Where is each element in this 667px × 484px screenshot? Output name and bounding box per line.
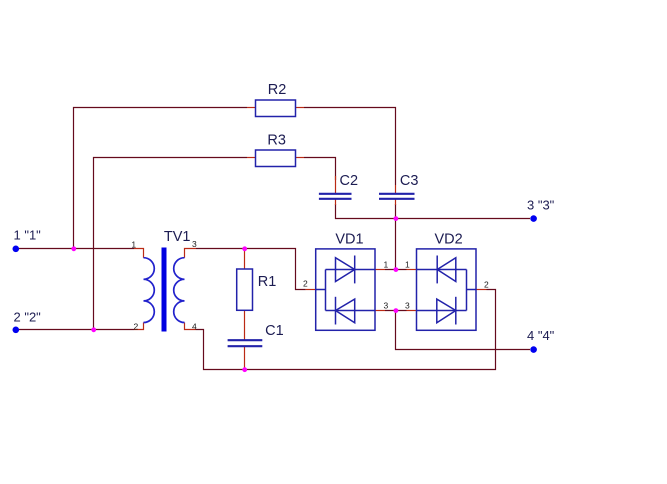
pin stub: C3 bottom pin <box>395 200 397 206</box>
transformer TV1 secondary winding <box>174 258 185 323</box>
pin stub: R3 right pin <box>296 157 305 159</box>
pin stub: TV1 pin2 <box>134 323 144 330</box>
resistor R3 <box>256 150 296 167</box>
pin stub: C1 bottom pin <box>244 347 246 370</box>
svg-text:3 "3": 3 "3" <box>527 198 555 213</box>
svg-text:VD2: VD2 <box>435 232 463 248</box>
pin stub: R1 bottom pin <box>244 311 246 341</box>
pin stub: VD2 pin3 <box>407 310 417 312</box>
junction node at TV1 pin3 / R1 <box>242 246 247 251</box>
svg-text:1: 1 <box>384 259 389 269</box>
diode bridge U VD1 box <box>316 249 375 330</box>
wire: R3 right to C2 top <box>304 158 336 181</box>
capacitor C1 <box>228 340 263 346</box>
pin stub: VD1 pin1 <box>375 269 385 271</box>
wire: node A to terminal3 <box>396 218 531 220</box>
resistor R2 <box>256 100 296 117</box>
pin stub: R1 top pin <box>244 249 246 270</box>
pin stub: R3 left pin <box>247 157 256 159</box>
wire: R2 right to C3 top <box>304 108 396 186</box>
svg-text:2: 2 <box>303 279 308 289</box>
terminal 4 dot <box>530 346 537 353</box>
diode VD1 bottom <box>336 297 355 325</box>
svg-text:2: 2 <box>484 280 489 290</box>
junction node at C1 bottom rail <box>242 367 247 372</box>
svg-text:R3: R3 <box>267 133 286 149</box>
pin stub: VD1 pin3 <box>375 310 385 312</box>
wire: C2 bottom to node A <box>336 204 396 219</box>
terminal 3 dot <box>530 215 537 222</box>
svg-text:1: 1 <box>405 259 410 269</box>
VD2 internal wiring <box>417 270 477 311</box>
junction node A (C2/C3/terminal3) <box>394 216 399 221</box>
wire net1: vertical up from junction to R2 left <box>74 108 248 249</box>
diode VD1 top <box>336 256 355 284</box>
svg-text:C1: C1 <box>265 323 284 339</box>
pin stub: VD1 pin2 <box>306 289 316 291</box>
svg-text:1 "1": 1 "1" <box>14 228 42 243</box>
pin stub: R2 right pin <box>296 107 305 109</box>
svg-text:TV1: TV1 <box>164 229 191 245</box>
wire net2: vertical up from junction to R3 left <box>94 158 248 330</box>
pin stub: VD2 pin1 <box>407 269 417 271</box>
wire net2: terminal2 to TV1 pin2 <box>19 329 134 331</box>
svg-text:VD1: VD1 <box>335 232 363 248</box>
svg-text:3: 3 <box>384 300 389 310</box>
diode bridge VD2 box <box>417 249 477 330</box>
pin stub: TV1 pin4 <box>185 323 197 330</box>
pin stub: VD2 pin2 <box>476 289 487 291</box>
pin stub: C2 bottom pin <box>335 200 337 206</box>
pin stub: C3 top pin <box>395 185 397 193</box>
junction node at R2/terminal1 <box>71 246 76 251</box>
wire: C3 bottom to node A <box>395 204 397 219</box>
transformer TV1 core <box>162 248 167 332</box>
pin stub: TV1 pin3 <box>185 249 197 258</box>
pin stub: TV1 pin1 <box>134 249 144 258</box>
wire: TV1 pin4 to bottom rail and VD2 pin2 <box>196 290 496 370</box>
wire: VD1 pin1 to VD2 pin1 node <box>385 269 407 271</box>
diode VD2 bottom <box>437 297 456 325</box>
wire: VD1 pin3 to VD2 pin3 node <box>385 310 407 312</box>
wire: pin3 node down to terminal4 <box>396 311 531 350</box>
pin stub: R2 left pin <box>247 107 256 109</box>
capacitor C3 <box>379 194 415 199</box>
transformer TV1 primary winding <box>144 258 155 323</box>
junction node at VD pin1 row <box>394 267 399 272</box>
svg-text:1: 1 <box>131 239 136 249</box>
diode VD2 top <box>437 256 456 284</box>
svg-text:4: 4 <box>192 322 197 332</box>
svg-text:R2: R2 <box>268 82 287 98</box>
svg-text:C2: C2 <box>340 173 359 189</box>
VD1 internal wiring <box>316 270 375 311</box>
svg-text:4 "4": 4 "4" <box>527 328 555 343</box>
svg-text:3: 3 <box>405 300 410 310</box>
wire: TV1 pin3 to R1 node and VD1 pin2 <box>196 249 306 290</box>
wire net1: terminal1 to TV1 pin1 <box>19 248 134 250</box>
svg-text:2: 2 <box>134 322 139 332</box>
terminal 2 dot <box>13 327 20 334</box>
svg-text:2 "2": 2 "2" <box>14 310 42 325</box>
svg-text:3: 3 <box>192 239 197 249</box>
capacitor C2 <box>319 194 352 199</box>
wire: node A down to VD pin1 node <box>395 219 397 270</box>
pin stub: C2 top pin <box>335 176 337 193</box>
resistor R1 <box>237 269 253 310</box>
junction node at R3/terminal2 <box>91 327 96 332</box>
terminal 1 dot <box>13 246 20 253</box>
junction node at VD pin3 row <box>394 308 399 313</box>
svg-text:R1: R1 <box>258 274 277 290</box>
svg-text:C3: C3 <box>400 173 419 189</box>
